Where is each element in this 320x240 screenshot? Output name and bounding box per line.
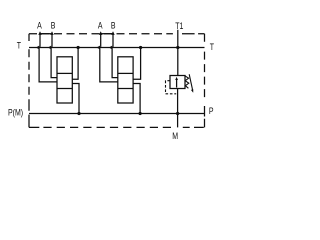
svg-text:T: T <box>17 41 21 51</box>
svg-text:T: T <box>210 42 214 52</box>
svg-text:A: A <box>98 20 103 30</box>
svg-text:P: P <box>209 106 214 116</box>
svg-text:T1: T1 <box>175 21 184 31</box>
svg-text:M: M <box>172 131 178 141</box>
svg-text:P(M): P(M) <box>8 107 23 117</box>
svg-text:B: B <box>51 20 56 30</box>
svg-text:B: B <box>111 20 116 30</box>
svg-text:A: A <box>37 20 42 30</box>
